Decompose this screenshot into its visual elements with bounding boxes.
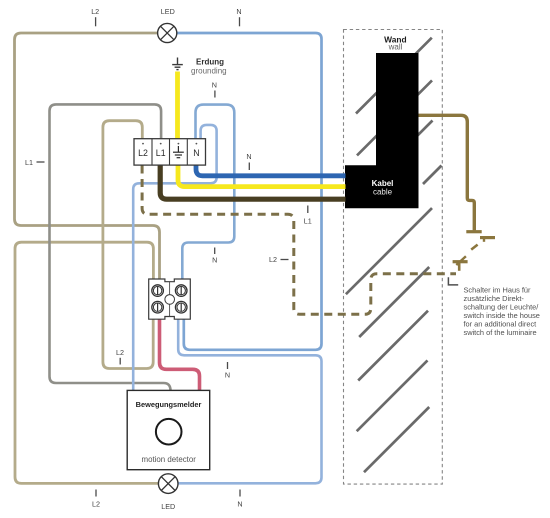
switch contact stub <box>483 239 485 242</box>
wire L1 gray <box>50 104 171 390</box>
svg-text:L2: L2 <box>269 255 277 264</box>
label N above connector <box>214 248 216 255</box>
switch contact slash <box>456 256 466 265</box>
wire N small loop to detector (light blue) <box>133 125 216 391</box>
switch contact bar 3 <box>453 260 468 263</box>
svg-text:N: N <box>212 81 217 90</box>
LED lamp top <box>158 23 177 42</box>
wire L2 bottom lamp loop (light olive) <box>15 242 159 483</box>
label N at bottom lamp wires <box>227 362 229 369</box>
LED lamp bottom <box>158 474 178 494</box>
wall hatch <box>346 38 442 473</box>
svg-text:N: N <box>236 7 241 16</box>
wire L1 dark brown to cable <box>160 165 345 199</box>
svg-text:cable: cable <box>373 188 393 197</box>
svg-text:N: N <box>193 148 199 158</box>
wire N connector to top lamp (medium blue) <box>177 33 322 350</box>
wire N loop terminal to connector (blue) <box>182 105 234 280</box>
bottom labels <box>95 490 97 497</box>
motion detector box <box>127 390 210 469</box>
label L1 on dashed <box>307 206 309 214</box>
connector block <box>149 279 191 319</box>
svg-text:Bewegungsmelder: Bewegungsmelder <box>136 400 202 409</box>
switch contact bar 2 <box>480 236 495 239</box>
detector lens circle <box>156 419 182 445</box>
wire N dark blue to cable <box>196 165 346 176</box>
svg-text:N: N <box>212 256 217 265</box>
wire N connector to bottom lamp (light blue) <box>178 319 322 483</box>
svg-text:Erdung: Erdung <box>196 58 224 67</box>
wall dashed border <box>344 30 443 485</box>
svg-text:LED: LED <box>161 502 175 511</box>
svg-text:L2: L2 <box>138 148 148 158</box>
svg-text:grounding: grounding <box>191 66 227 75</box>
grounding symbol top <box>172 58 183 70</box>
svg-text:L1: L1 <box>25 158 33 167</box>
switch contact stem <box>458 262 461 271</box>
wire earth yellow (top) <box>175 72 180 140</box>
wire earth yellow to cable <box>178 165 346 187</box>
switch contact bar 1 <box>466 230 481 233</box>
note text Schalter <box>464 286 540 337</box>
svg-text:wall: wall <box>388 42 403 51</box>
wire olive to house switch <box>419 115 475 230</box>
svg-text:N: N <box>246 152 251 161</box>
svg-text:LED: LED <box>161 7 175 16</box>
svg-text:L2: L2 <box>92 500 100 509</box>
svg-text:L1: L1 <box>156 148 166 158</box>
svg-text:N: N <box>225 371 230 380</box>
wire dashed L2 to house switch <box>142 166 456 315</box>
cable (black L shape) <box>345 53 419 208</box>
svg-text:switch of the luminaire: switch of the luminaire <box>464 328 537 337</box>
terminal block <box>134 139 206 165</box>
svg-text:N: N <box>237 500 242 509</box>
switch lever dash <box>471 245 477 250</box>
svg-text:motion detector: motion detector <box>142 455 197 464</box>
wire L2 terminal to connector (olive U) <box>103 121 153 369</box>
pointer to note text <box>448 277 458 285</box>
wire pink detector switched line <box>160 319 200 390</box>
wire L2 top lamp loop (dark olive) <box>15 33 160 280</box>
terminal ground symbol <box>173 146 184 158</box>
svg-text:L1: L1 <box>304 217 312 226</box>
svg-text:L2: L2 <box>116 348 124 357</box>
svg-text:L2: L2 <box>91 7 99 16</box>
